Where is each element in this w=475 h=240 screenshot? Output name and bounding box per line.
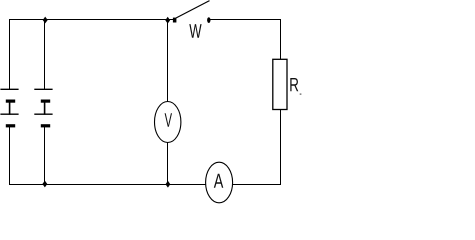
wire top-right segment [210,19,282,21]
wire second branch upper [44,19,46,90]
wire battery2 lower stem [44,127,46,185]
label V [165,113,172,126]
label W [189,24,201,38]
wire left branch upper [9,19,11,90]
wire battery2 mid stem [44,102,46,114]
switch W blade [176,1,210,18]
voltmeter V [155,102,181,143]
battery B1 (two cells, left branch) [0,89,18,127]
battery B2 (two cells, second branch) [34,89,52,127]
node junction bottom branch2 [42,181,47,188]
wire bottom [9,184,281,186]
node junction bottom voltmeter [166,181,171,188]
wire battery1 mid stem [9,102,11,114]
wire voltmeter branch [167,19,169,185]
wire right branch [280,19,282,185]
label R [290,78,298,91]
switch W terminal (right dot) [207,17,210,23]
node junction top voltmeter [165,17,170,24]
label R subscript dot [300,93,302,95]
wire top-left segment [9,19,175,21]
node junction top branch2 [43,17,48,24]
switch W terminal (left square) [173,18,177,23]
resistor R [273,59,287,109]
wire battery1 lower stem [9,127,11,185]
label A [214,174,224,188]
ammeter A [206,162,233,203]
